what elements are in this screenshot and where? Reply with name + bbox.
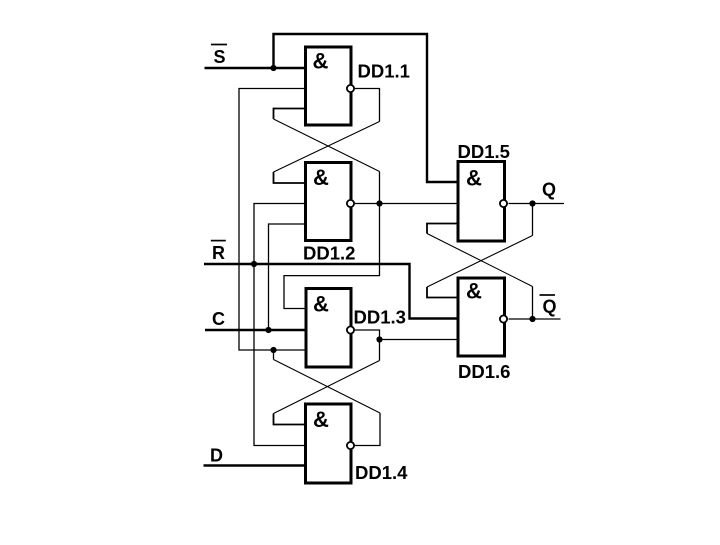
svg-text:R: R (212, 243, 225, 263)
svg-text:Q: Q (542, 180, 556, 200)
svg-text:DD1.1: DD1.1 (358, 61, 410, 82)
svg-text:&: & (313, 165, 329, 190)
svg-text:Q: Q (543, 297, 557, 317)
svg-text:&: & (313, 49, 329, 74)
svg-text:DD1.4: DD1.4 (355, 462, 408, 483)
svg-text:DD1.5: DD1.5 (458, 141, 510, 162)
svg-text:DD1.6: DD1.6 (458, 361, 510, 382)
svg-text:DD1.3: DD1.3 (354, 307, 406, 328)
svg-text:&: & (466, 279, 482, 304)
svg-text:&: & (313, 407, 329, 432)
svg-text:S: S (214, 47, 226, 67)
svg-text:D: D (210, 446, 223, 466)
svg-text:C: C (212, 309, 225, 329)
svg-text:DD1.2: DD1.2 (303, 243, 355, 264)
svg-text:&: & (313, 292, 329, 317)
svg-text:&: & (466, 166, 482, 191)
